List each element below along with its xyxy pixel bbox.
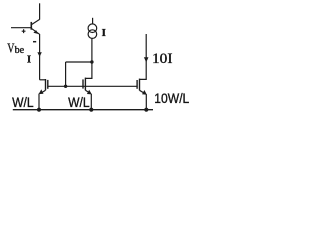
wire M3 source to rail — [145, 94, 147, 110]
transistor M3 source lead — [140, 90, 145, 93]
wire 10I branch down — [140, 34, 147, 79]
current arrow 10I (down) — [144, 57, 149, 62]
minus sign (Vbe -) — [33, 41, 36, 43]
transistor Q1 base lead wire — [11, 27, 31, 29]
node junction dot on drain wire — [90, 60, 93, 63]
wire M1 drain jog — [40, 79, 46, 81]
wire M2 source to rail — [90, 94, 92, 110]
transistor Q1 collector diagonal — [31, 19, 39, 24]
current source CS1 circle lower — [88, 30, 97, 39]
wire gate-to-drain tie vertical — [65, 62, 67, 86]
transistor M2 source lead — [85, 90, 90, 93]
transistor M1 source lead — [40, 90, 45, 93]
transistor M2 channel bar — [84, 78, 86, 91]
node junction dot on gate bus — [64, 85, 67, 88]
svg-text:10W/L: 10W/L — [154, 90, 189, 106]
wire collector up — [39, 3, 41, 19]
wire gate-to-drain tie horizontal — [66, 61, 92, 63]
plus sign (Vbe +) — [22, 29, 26, 33]
transistor Q1 emitter arrowhead — [33, 30, 38, 34]
transistor Q1 base bar — [30, 22, 32, 30]
wire emitter down to M1 drain — [39, 34, 41, 80]
wire ground rail — [13, 109, 153, 111]
node rail dot M2 — [89, 108, 93, 112]
transistor M3 gate bar — [136, 80, 138, 89]
svg-text:W/L: W/L — [68, 94, 90, 110]
svg-text:be: be — [15, 45, 25, 56]
svg-text:I: I — [27, 54, 31, 66]
wire gate bus — [48, 85, 137, 87]
transistor M1 source arrowhead — [39, 89, 44, 94]
node rail dot M3 — [144, 108, 148, 112]
transistor Q1 emitter diagonal — [31, 28, 39, 34]
node rail dot M1 — [37, 108, 41, 112]
svg-text:I: I — [102, 27, 106, 39]
transistor M2 gate bar — [82, 79, 84, 88]
current source CS1 circle upper — [88, 24, 97, 33]
current source CS1 top lead — [92, 18, 94, 24]
transistor M3 source arrowhead — [142, 90, 147, 95]
transistor M2 source arrowhead — [87, 90, 92, 95]
wire current source to M2 drain — [85, 38, 92, 78]
transistor M1 channel bar — [45, 79, 47, 90]
svg-text:V: V — [7, 42, 14, 57]
transistor M3 channel bar — [139, 79, 141, 91]
current arrow I (down) on emitter wire — [37, 52, 41, 57]
wire M1 source to rail — [38, 94, 40, 110]
transistor M1 gate bar — [47, 80, 49, 89]
svg-text:W/L: W/L — [12, 94, 34, 110]
svg-text:10I: 10I — [152, 51, 173, 67]
